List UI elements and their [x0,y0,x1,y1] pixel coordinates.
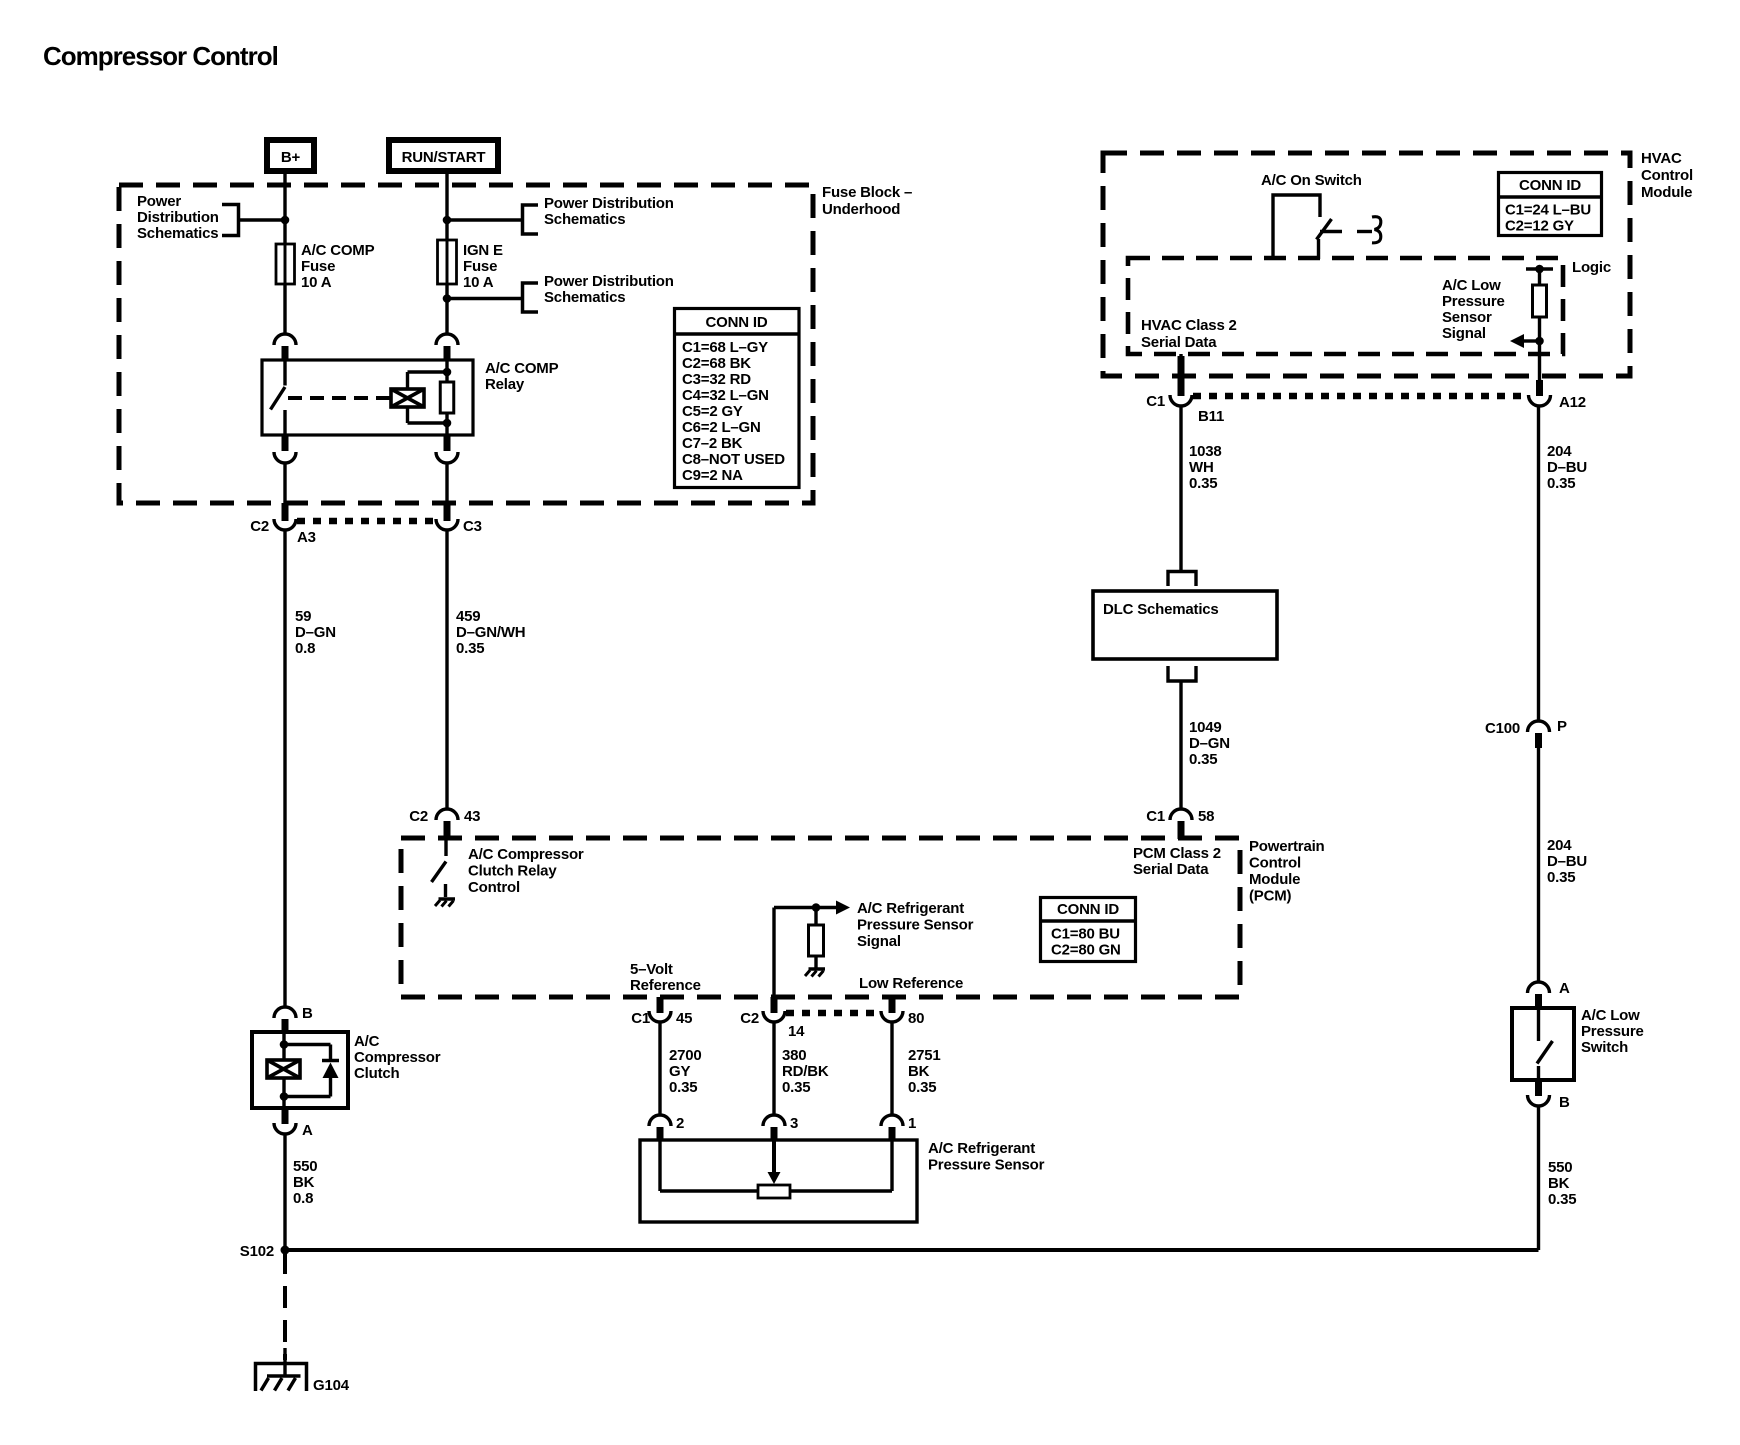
svg-text:59: 59 [295,608,311,625]
svg-text:0.35: 0.35 [1547,869,1575,886]
svg-text:WH: WH [1189,459,1214,476]
RUN/START terminal box [389,140,498,171]
connector cup relay bottom right [436,452,458,463]
svg-text:C8–NOT USED: C8–NOT USED [682,451,785,468]
ground G104 wire stub [283,1348,286,1377]
pin stub A12 [1536,380,1543,396]
svg-text:Schematics: Schematics [544,289,625,306]
svg-text:Sensor: Sensor [1442,309,1492,326]
clutch wire top [282,1032,285,1060]
pin stub C1 45 [657,997,664,1013]
pin stub 2 [657,1127,664,1141]
pin stub C3 [444,503,451,521]
svg-text:A/C COMP: A/C COMP [485,360,559,377]
pin stub 3 [771,1127,778,1141]
svg-text:A3: A3 [297,529,316,546]
svg-text:C9=2 NA: C9=2 NA [682,467,743,484]
wire 380 RD/BK [772,1023,775,1115]
svg-text:204: 204 [1547,443,1572,460]
powertrain control module dashed box [401,838,1240,997]
svg-text:550: 550 [1548,1159,1572,1176]
svg-text:B+: B+ [281,149,301,166]
dlc bottom tab [1168,666,1196,681]
svg-text:Module: Module [1249,871,1300,888]
dlc top tab [1168,572,1196,587]
node junction on RUN/START wire upper [443,216,452,225]
svg-text:Distribution: Distribution [137,209,219,226]
node clutch top junction [280,1040,289,1049]
B+ terminal box [267,140,314,171]
wire 204 D-BU lower [1537,748,1540,982]
svg-text:Fuse Block –: Fuse Block – [822,184,912,201]
wire 2751 BK [890,1023,893,1115]
inline connector dotted line C2-80 [786,1010,880,1017]
wire tap to power distribution bracket upper [447,218,522,221]
svg-text:P: P [1557,718,1567,735]
svg-text:0.35: 0.35 [782,1079,810,1096]
svg-text:C1=80 BU: C1=80 BU [1051,926,1120,943]
pin stub 43 [444,821,451,839]
pin stub B clutch [282,1019,289,1033]
svg-text:C1: C1 [1146,808,1165,825]
svg-text:0.35: 0.35 [456,640,484,657]
connector arc C1 58 [1170,809,1192,820]
connector cup C1 45 [649,1011,671,1022]
svg-text:A/C COMP: A/C COMP [301,242,375,259]
svg-text:DLC Schematics: DLC Schematics [1103,601,1219,618]
pin stub C100 [1535,733,1542,748]
ground G104 bracket [256,1364,307,1392]
relay actuation dashed line [288,396,391,400]
connector arc pin 2 [649,1115,671,1126]
pcm clutch relay control switch blade [432,862,447,883]
svg-text:Signal: Signal [857,933,901,950]
a/c on switch detent curl [1372,217,1381,243]
svg-text:10 A: 10 A [301,274,332,291]
pin stub C2 A3 [282,503,289,521]
svg-text:Clutch Relay: Clutch Relay [468,863,557,880]
svg-text:Reference: Reference [630,977,701,994]
hvac control module dashed box [1103,153,1630,376]
pin stub A pressure switch [1535,994,1542,1009]
connector cup C2 14 [763,1011,785,1022]
connector cup 80 [881,1011,903,1022]
svg-text:550: 550 [293,1158,317,1175]
arrowhead refrigerant signal [836,901,850,915]
ground G104 rake [267,1374,301,1378]
resistor pull in PCM [809,925,824,956]
connector cup C3 [436,519,458,530]
svg-text:Powertrain: Powertrain [1249,838,1325,855]
ground rake in PCM left [439,897,456,901]
a/c compressor clutch box [252,1032,348,1108]
wire refrigerant signal horizontal [774,906,836,909]
svg-text:204: 204 [1547,837,1572,854]
pressure switch blade [1537,1041,1553,1064]
svg-text:A/C: A/C [354,1033,380,1050]
svg-text:D–GN: D–GN [295,624,336,641]
pin stub A clutch [282,1108,289,1124]
svg-text:58: 58 [1198,808,1214,825]
svg-text:C4=32 L–GN: C4=32 L–GN [682,387,769,404]
wire 59 D-GN left vertical [283,531,286,1007]
conn id table fuse block [675,309,800,488]
svg-text:C3=32 RD: C3=32 RD [682,371,751,388]
svg-text:0.35: 0.35 [1547,475,1575,492]
connector arc C100 P [1528,721,1550,732]
svg-text:BK: BK [1548,1175,1570,1192]
wire tap to power distribution bracket [238,218,285,221]
svg-text:RD/BK: RD/BK [782,1063,829,1080]
logic terminal bar [1526,267,1553,270]
svg-text:Switch: Switch [1581,1039,1628,1056]
pin stub C1 B11 [1178,356,1185,396]
sensor wire pin1 internal [890,1141,893,1191]
svg-text:C7–2 BK: C7–2 BK [682,435,743,452]
svg-text:2751: 2751 [908,1047,941,1064]
svg-text:GY: GY [669,1063,690,1080]
pressure switch wire top [1537,1008,1540,1041]
svg-text:BK: BK [908,1063,930,1080]
svg-text:Power Distribution: Power Distribution [544,273,674,290]
svg-text:PCM Class 2: PCM Class 2 [1133,845,1221,862]
relay U1 A/C COMP relay box [262,360,473,435]
svg-text:Serial Data: Serial Data [1141,334,1217,351]
wire resistor to ground [814,956,817,968]
pin stub 80 [889,997,896,1013]
pin stub relay left [282,346,289,361]
relay pin stub bottom left [282,435,289,451]
a/c low pressure switch box [1512,1008,1574,1080]
svg-text:1049: 1049 [1189,719,1222,736]
pin stub 58 [1178,821,1185,839]
node relay coil bottom junction [443,419,452,428]
sensor element wire [660,1189,892,1192]
svg-text:Pressure: Pressure [1581,1023,1644,1040]
svg-text:BK: BK [293,1174,315,1191]
clutch wire bottom [282,1078,285,1108]
svg-text:80: 80 [908,1010,924,1027]
wire fuse to relay connector right [445,284,448,334]
wire fuse to relay connector [283,284,286,334]
svg-text:0.35: 0.35 [1189,475,1217,492]
relay right wire [445,360,448,435]
inline connector dotted line C2-C3 [297,518,435,525]
svg-text:D–BU: D–BU [1547,459,1587,476]
svg-text:B: B [1559,1094,1570,1111]
wire relay right to fuse block edge [445,464,448,503]
wire 550 BK left [283,1135,286,1250]
connector cup C2 A3 [274,519,296,530]
svg-text:0.8: 0.8 [293,1190,313,1207]
clutch diode triangle [323,1063,339,1079]
svg-text:C1: C1 [631,1010,650,1027]
pin stub B pressure switch [1535,1080,1542,1096]
clutch diode bottom link [329,1078,332,1097]
wire RUN/START to fuse [445,174,448,240]
svg-text:A: A [302,1122,313,1139]
svg-text:1038: 1038 [1189,443,1222,460]
svg-text:Pressure Sensor: Pressure Sensor [857,917,974,934]
svg-text:Power Distribution: Power Distribution [544,195,674,212]
svg-text:A/C Low: A/C Low [1581,1007,1640,1024]
svg-text:C3: C3 [463,518,482,535]
svg-text:2: 2 [676,1115,684,1132]
pcm switch ground wire [444,884,447,897]
svg-text:CONN ID: CONN ID [1519,177,1581,194]
svg-text:C6=2 L–GN: C6=2 L–GN [682,419,761,436]
svg-text:C2: C2 [250,518,269,535]
sensor wire pin2 internal [658,1141,661,1191]
node refrigerant signal junction [812,903,821,912]
svg-text:3: 3 [790,1115,798,1132]
svg-text:A/C Refrigerant: A/C Refrigerant [857,900,964,917]
arrowhead sensor signal left [1510,334,1524,348]
node clutch bottom junction [280,1092,289,1101]
svg-text:Control: Control [468,879,520,896]
a/c on switch bracket [1273,195,1320,259]
a/c on switch lower terminal [1317,239,1320,259]
relay coil [391,389,424,407]
a/c on switch blade [1317,219,1332,240]
relay coil top link [406,372,409,389]
svg-text:Fuse: Fuse [301,258,335,275]
conn id table PCM [1041,898,1136,962]
svg-text:C2=12 GY: C2=12 GY [1505,218,1574,235]
relay coil bottom link [406,407,409,423]
connector arc B clutch [274,1007,296,1018]
wire 459 D-GN/WH vertical [445,531,448,809]
clutch coil [267,1060,300,1078]
wire 1049 D-GN [1179,681,1182,809]
svg-text:5–Volt: 5–Volt [630,961,673,978]
connector cup B pressure switch [1528,1095,1550,1106]
svg-text:Clutch: Clutch [354,1065,400,1082]
svg-text:Power: Power [137,193,181,210]
connector arc A pressure switch [1528,982,1550,993]
svg-text:A/C Refrigerant: A/C Refrigerant [928,1140,1035,1157]
node logic terminal [1535,265,1544,274]
logic dashed box [1128,258,1563,354]
wire hvac class2 exit [1179,354,1182,368]
wire S102 to ground dashed [283,1252,287,1360]
svg-text:HVAC: HVAC [1641,150,1682,167]
svg-text:Pressure: Pressure [1442,293,1505,310]
wire 2700 GY [658,1023,661,1115]
wire 204 D-BU upper [1537,407,1540,721]
node relay coil top junction [443,368,452,377]
relay switch wire lower [283,410,286,435]
fuse IGN E 10A [438,240,457,284]
svg-text:CONN ID: CONN ID [1057,901,1119,918]
svg-text:B11: B11 [1198,408,1224,425]
svg-text:IGN E: IGN E [463,242,503,259]
wire B+ to fuse [283,174,286,244]
svg-text:D–GN/WH: D–GN/WH [456,624,525,641]
svg-text:0.35: 0.35 [908,1079,936,1096]
connector cup C1 B11 [1170,395,1192,406]
pcm clutch relay control switch wire [444,839,447,856]
inline connector dotted line B11-A12 [1193,393,1527,400]
resistor pull-up HVAC [1533,285,1547,317]
svg-text:45: 45 [676,1010,692,1027]
connector arc relay pin right [436,334,458,345]
svg-text:CONN ID: CONN ID [706,314,768,331]
svg-text:2700: 2700 [669,1047,702,1064]
relay pin stub bottom right [444,435,451,451]
relay switch blade [271,387,286,410]
wire tap to power distribution bracket lower [447,297,522,300]
svg-text:10 A: 10 A [463,274,494,291]
dlc schematics box [1093,591,1277,659]
a/c refrigerant pressure sensor box [640,1140,917,1222]
sensor wiper arrowhead [768,1172,781,1184]
svg-text:Serial Data: Serial Data [1133,861,1209,878]
wire sensor signal arrow line [1524,339,1540,342]
a/c on switch contact line [1320,230,1342,233]
svg-text:C1=24 L–BU: C1=24 L–BU [1505,202,1591,219]
svg-text:C5=2 GY: C5=2 GY [682,403,743,420]
fuse A/C COMP 10A [276,244,295,284]
bracket power distribution right upper [523,205,539,234]
svg-text:0.35: 0.35 [1189,751,1217,768]
svg-text:RUN/START: RUN/START [402,149,486,166]
svg-text:Compressor: Compressor [354,1049,441,1066]
wire S102 horizontal [285,1248,1539,1252]
svg-text:43: 43 [464,808,480,825]
svg-text:A: A [1559,980,1570,997]
wire 550 BK right [1537,1107,1540,1250]
svg-text:Logic: Logic [1572,259,1611,276]
connector arc pin 3 [763,1115,785,1126]
a/c on switch detent line [1357,230,1372,233]
wire a12 exit [1538,354,1541,382]
pin stub C2 14 [771,997,778,1013]
clutch diode top link [284,1043,331,1046]
connector arc pin 1 [881,1115,903,1126]
svg-text:380: 380 [782,1047,806,1064]
bracket power distribution left [222,205,239,236]
svg-text:C2=68 BK: C2=68 BK [682,355,751,372]
svg-text:A/C Compressor: A/C Compressor [468,846,584,863]
wire resistor to arrow junction [1538,317,1541,354]
wire 1038 WH [1179,407,1182,572]
svg-text:Control: Control [1249,855,1301,872]
connector cup relay bottom left [274,452,296,463]
svg-text:Low Reference: Low Reference [859,975,963,992]
wire relay left to fuse block edge [283,464,286,503]
wire junction to resistor [814,908,817,926]
sensor potentiometer element [758,1185,790,1198]
pin stub 1 [889,1127,896,1141]
svg-text:Schematics: Schematics [137,225,218,242]
ground rake in PCM middle [809,967,826,971]
relay switch wire upper [283,360,286,386]
bracket power distribution right lower [523,283,539,312]
svg-text:Relay: Relay [485,376,525,393]
relay resistor [440,382,454,413]
connector arc C2 43 [436,809,458,820]
svg-text:C2: C2 [409,808,428,825]
fuse block underhood dashed box [119,185,813,503]
svg-text:Module: Module [1641,184,1692,201]
conn id table HVAC [1499,173,1602,236]
clutch diode cathode bar [322,1059,339,1063]
svg-text:D–GN: D–GN [1189,735,1230,752]
svg-text:14: 14 [788,1023,805,1040]
svg-text:Signal: Signal [1442,325,1486,342]
connector cup A12 [1529,395,1551,406]
svg-text:Underhood: Underhood [822,201,900,218]
pin stub relay right [444,346,451,361]
node sensor signal junction [1535,337,1544,346]
svg-text:S102: S102 [240,1243,274,1260]
svg-text:Schematics: Schematics [544,211,625,228]
svg-text:A/C On Switch: A/C On Switch [1261,172,1362,189]
svg-text:(PCM): (PCM) [1249,888,1292,905]
connector arc relay pin left [274,334,296,345]
svg-text:Fuse: Fuse [463,258,497,275]
svg-text:HVAC Class 2: HVAC Class 2 [1141,317,1237,334]
wire logic to resistor [1538,269,1541,285]
sensor wiper arrow line [772,1141,776,1176]
svg-text:C2: C2 [740,1010,759,1027]
svg-text:B: B [302,1005,313,1022]
svg-text:0.8: 0.8 [295,640,315,657]
pressure switch wire bottom [1537,1066,1540,1080]
svg-text:1: 1 [908,1115,916,1132]
svg-text:C100: C100 [1485,720,1520,737]
svg-text:A/C Low: A/C Low [1442,277,1501,294]
node junction on B+ wire [281,216,290,225]
svg-text:C1=68 L–GY: C1=68 L–GY [682,339,768,356]
node junction on RUN/START wire lower [443,294,452,303]
svg-text:459: 459 [456,608,480,625]
svg-text:Compressor Control: Compressor Control [43,41,278,71]
svg-text:C2=80 GN: C2=80 GN [1051,942,1121,959]
svg-text:0.35: 0.35 [1548,1191,1576,1208]
svg-text:A12: A12 [1559,394,1586,411]
svg-text:D–BU: D–BU [1547,853,1587,870]
connector cup A clutch [274,1123,296,1134]
splice S102 node [281,1246,290,1255]
svg-text:C1: C1 [1146,393,1165,410]
svg-text:Control: Control [1641,167,1693,184]
svg-text:Pressure Sensor: Pressure Sensor [928,1157,1045,1174]
svg-text:G104: G104 [313,1377,350,1394]
wire low reference riser [772,908,775,998]
svg-text:0.35: 0.35 [669,1079,697,1096]
